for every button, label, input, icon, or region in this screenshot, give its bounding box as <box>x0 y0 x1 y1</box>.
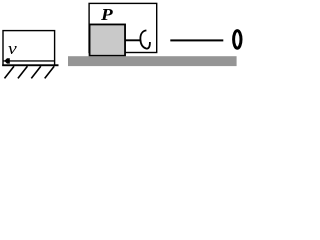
ground line under velocity box <box>2 64 58 66</box>
platform (gray table top) <box>68 56 237 66</box>
block P (gray cube on platform) <box>90 24 126 55</box>
hook on block <box>140 30 150 48</box>
cord to pulley <box>170 39 223 41</box>
ground hatching (left) <box>5 66 55 78</box>
label P <box>101 7 127 26</box>
velocity box (white box, black border, left side) <box>3 31 55 66</box>
label v <box>8 39 29 56</box>
pulley (ellipse at right) <box>234 31 241 49</box>
velocity arrow (pointing left) <box>3 60 55 61</box>
label box around P (white box, black border) <box>89 3 157 52</box>
rod from block to hook <box>125 39 141 41</box>
